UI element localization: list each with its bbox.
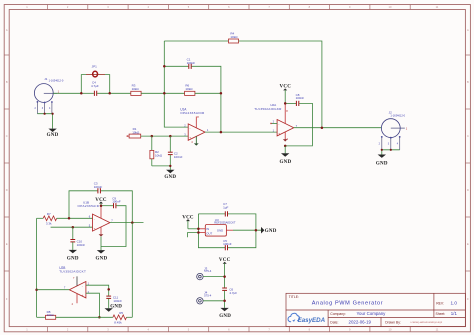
svg-text:OPA2365AIDR: OPA2365AIDR — [180, 111, 205, 115]
wire U2B pin1 — [86, 285, 109, 296]
junction U1A out feedback — [220, 131, 223, 134]
svg-text:GND: GND — [219, 314, 231, 319]
frame ticks left and right — [4, 55, 470, 271]
wire U2A out — [294, 127, 382, 129]
junction J3 — [223, 275, 226, 278]
wire J1 bottom rail — [37, 114, 52, 129]
ground GND R2C2 — [164, 170, 176, 180]
svg-text:4.7µF: 4.7µF — [229, 291, 237, 295]
resistor R4 — [229, 32, 239, 43]
jumper JP1 — [81, 65, 109, 94]
svg-text:100nF: 100nF — [113, 299, 122, 303]
svg-text:D: D — [6, 188, 8, 192]
capacitor C10 — [70, 227, 85, 250]
svg-text:GND: GND — [67, 256, 79, 261]
svg-text:1.0: 1.0 — [451, 301, 458, 306]
svg-text:C: C — [6, 134, 8, 138]
wire node vertical — [164, 41, 188, 127]
svg-text:GND: GND — [47, 133, 59, 138]
wire C3 rail — [69, 191, 132, 223]
junction C10 tap — [72, 226, 75, 229]
svg-text:A: A — [467, 28, 469, 32]
resistor R5 — [113, 311, 127, 324]
ground GND U2A — [279, 146, 291, 165]
wire R3 to node — [141, 92, 164, 94]
junction R6 right — [220, 92, 223, 95]
svg-text:10kΩ: 10kΩ — [185, 87, 193, 91]
svg-text:100pF: 100pF — [94, 185, 103, 189]
wire right vertical down — [131, 223, 133, 318]
svg-text:E: E — [467, 242, 469, 246]
op-amp U1A — [180, 107, 209, 145]
wire U3 gnd right — [233, 229, 261, 231]
resistor R6 — [185, 83, 195, 95]
svg-text:10kΩ: 10kΩ — [132, 131, 140, 135]
svg-text:1µF: 1µF — [223, 206, 228, 210]
resistor R8 — [46, 310, 56, 319]
ground GND C11 — [105, 304, 123, 311]
ground GND U3 (sideways) — [261, 227, 277, 234]
svg-text:Your Company: Your Company — [357, 311, 387, 316]
svg-text:575-4: 575-4 — [204, 293, 212, 297]
wire R6 right — [195, 92, 221, 94]
svg-text:Sheet:: Sheet: — [436, 312, 446, 316]
svg-text:GND: GND — [217, 229, 223, 233]
junction U3 pins — [197, 228, 200, 231]
wire R4 rail — [164, 40, 228, 42]
wire R2 C2 bottom rail — [152, 165, 171, 167]
svg-text:10kΩ: 10kΩ — [47, 313, 55, 317]
wire C4 right — [97, 92, 131, 94]
resistor R7 — [37, 212, 57, 226]
svg-text:-: - — [94, 217, 95, 221]
ground GND U1B — [95, 237, 107, 262]
svg-text:+: + — [82, 293, 84, 297]
svg-text:100nF: 100nF — [174, 155, 183, 159]
wire R7 to pin2 U1B — [57, 217, 93, 219]
junction R2 tap — [151, 135, 154, 138]
svg-text:OPA2365AID: OPA2365AID — [78, 204, 100, 208]
wire GND stem — [169, 166, 171, 170]
ground GND testpoints — [219, 308, 231, 319]
connector J1 — [34, 77, 63, 114]
svg-text:100pF: 100pF — [187, 61, 196, 65]
svg-text:C: C — [467, 134, 469, 138]
resistor R1 — [127, 127, 141, 138]
wire R4 rail right — [239, 41, 322, 128]
wire R1 to pin3 — [141, 135, 189, 137]
test point J4 — [197, 291, 225, 304]
svg-text:Date:: Date: — [330, 320, 338, 324]
svg-text:E: E — [6, 242, 8, 246]
wire C1 rail left — [164, 65, 188, 67]
capacitor C5 bottom — [223, 239, 232, 251]
junction C3 left — [68, 217, 71, 220]
junction U1B out — [131, 221, 134, 224]
junction VCC C9 — [100, 204, 103, 207]
svg-text:10kΩ: 10kΩ — [155, 154, 163, 158]
capacitor C6 — [222, 287, 237, 308]
junction C11 — [107, 288, 110, 291]
svg-text:REV:: REV: — [436, 301, 444, 305]
svg-text:OUT: OUT — [206, 231, 212, 235]
svg-text:2022-06-19: 2022-06-19 — [349, 320, 372, 325]
capacitor C11 — [106, 296, 122, 309]
wire C4 left — [81, 92, 94, 94]
svg-text:GND: GND — [95, 256, 107, 261]
junction U2B out — [35, 288, 38, 291]
wire U1B out — [110, 222, 144, 224]
svg-text:575-4: 575-4 — [204, 269, 212, 273]
svg-text:Analog PWM Generator: Analog PWM Generator — [312, 300, 383, 306]
TITLE BLOCK — [286, 293, 465, 326]
svg-text:GND: GND — [110, 304, 122, 309]
junction node A — [163, 92, 166, 95]
junction bottom rail — [98, 316, 101, 319]
junction J4 — [223, 300, 226, 303]
svg-text:1-1634612-0: 1-1634612-0 — [49, 79, 64, 83]
power VCC U1B — [95, 198, 107, 206]
svg-text:TLV3502AIDGKR: TLV3502AIDGKR — [254, 107, 282, 111]
power VCC U3 — [182, 215, 198, 228]
svg-text:8.45k: 8.45k — [114, 321, 122, 325]
power VCC testpoints — [219, 258, 231, 288]
svg-text:B: B — [6, 80, 8, 84]
wire left vertical — [36, 218, 38, 317]
wire U1A out — [205, 131, 277, 133]
wire pin3 U1B — [51, 226, 93, 228]
connector J2 — [379, 111, 408, 150]
svg-text:B: B — [467, 80, 469, 84]
frame ticks top — [48, 5, 411, 10]
svg-text:+: + — [278, 132, 280, 136]
capacitor C1 — [187, 58, 196, 69]
svg-text:TLV3502AIDCKT: TLV3502AIDCKT — [59, 269, 86, 273]
capacitor C3 — [94, 181, 103, 193]
svg-text:-: - — [190, 126, 191, 130]
wire U3 loop — [198, 214, 256, 248]
svg-text:-: - — [82, 284, 83, 288]
resistor R3 — [131, 83, 141, 95]
svg-text:GND: GND — [279, 160, 291, 165]
junction C2 tap — [169, 135, 172, 138]
capacitor C7 top — [223, 202, 228, 216]
capacitor C9 — [101, 196, 126, 246]
junction pin4 C8 — [284, 145, 287, 148]
svg-text:A: A — [6, 28, 8, 32]
svg-text:REF2025AIDCKT: REF2025AIDCKT — [214, 221, 236, 225]
svg-text:EasyEDA: EasyEDA — [298, 317, 326, 324]
capacitor C4 — [91, 80, 99, 96]
svg-text:R5: R5 — [119, 311, 123, 315]
op-amp U2B (mirrored) — [59, 266, 89, 306]
svg-text:GND: GND — [265, 229, 277, 234]
svg-text:TITLE:: TITLE: — [289, 295, 299, 299]
wire node to R6 — [164, 92, 184, 94]
svg-text:100nF: 100nF — [223, 242, 232, 246]
svg-text:100nF: 100nF — [77, 243, 86, 247]
junction dots C4 — [80, 92, 83, 95]
wire main input — [53, 92, 81, 94]
test point J3 — [197, 266, 225, 280]
svg-text:1-1634612-0: 1-1634612-0 — [390, 114, 405, 118]
EasyEDA logo — [288, 313, 326, 324]
svg-text:LCEEWQ-HWR-WU-EWRQO-NQR: LCEEWQ-HWR-WU-EWRQO-NQR — [411, 322, 443, 324]
svg-text:-: - — [278, 122, 279, 126]
svg-text:Company:: Company: — [330, 312, 346, 316]
wire U2B pin2 — [86, 293, 100, 317]
svg-text:+: + — [189, 136, 191, 140]
svg-text:3.3k: 3.3k — [46, 222, 52, 226]
op-amp U1B — [78, 201, 114, 237]
svg-text:D: D — [467, 188, 469, 192]
svg-text:4.7µF: 4.7µF — [91, 84, 99, 88]
svg-text:GND: GND — [376, 161, 388, 166]
wire bottom rail mid — [56, 316, 113, 318]
svg-text:100nF: 100nF — [112, 200, 121, 204]
svg-text:10kΩ: 10kΩ — [132, 87, 140, 91]
resistor R2 — [150, 136, 163, 166]
junction J1 rail — [44, 113, 46, 115]
wire J2 bottom rail — [382, 150, 400, 155]
wire U2B out — [37, 289, 70, 291]
IC U3 REF2025 — [198, 218, 235, 236]
junction R4 out — [321, 126, 324, 129]
power VCC U2A — [280, 85, 292, 104]
svg-text:GND: GND — [164, 175, 176, 180]
capacitor C8 — [285, 93, 312, 146]
op-amp U2A — [254, 103, 297, 141]
svg-text:JP1: JP1 — [92, 65, 98, 69]
svg-text:100nF: 100nF — [296, 96, 305, 100]
svg-text:10kΩ: 10kΩ — [230, 35, 238, 39]
svg-text:Drawn By:: Drawn By: — [385, 320, 401, 324]
ground GND J2 — [376, 155, 388, 167]
capacitor C2 — [168, 136, 183, 166]
svg-text:+: + — [94, 227, 96, 231]
wire bottom rail left — [37, 316, 46, 318]
wire U3 out stub — [187, 233, 198, 238]
wire C1 rail right — [192, 66, 221, 132]
ground GND J1 — [47, 129, 59, 138]
wire bottom rail right corner — [127, 316, 133, 318]
svg-text:R7: R7 — [47, 212, 51, 216]
frame ticks bottom — [48, 327, 411, 332]
svg-text:1/1: 1/1 — [451, 311, 458, 316]
ground GND C10 — [67, 250, 79, 262]
svg-text:J1: J1 — [44, 77, 48, 81]
junction VCC C8 — [284, 102, 287, 105]
